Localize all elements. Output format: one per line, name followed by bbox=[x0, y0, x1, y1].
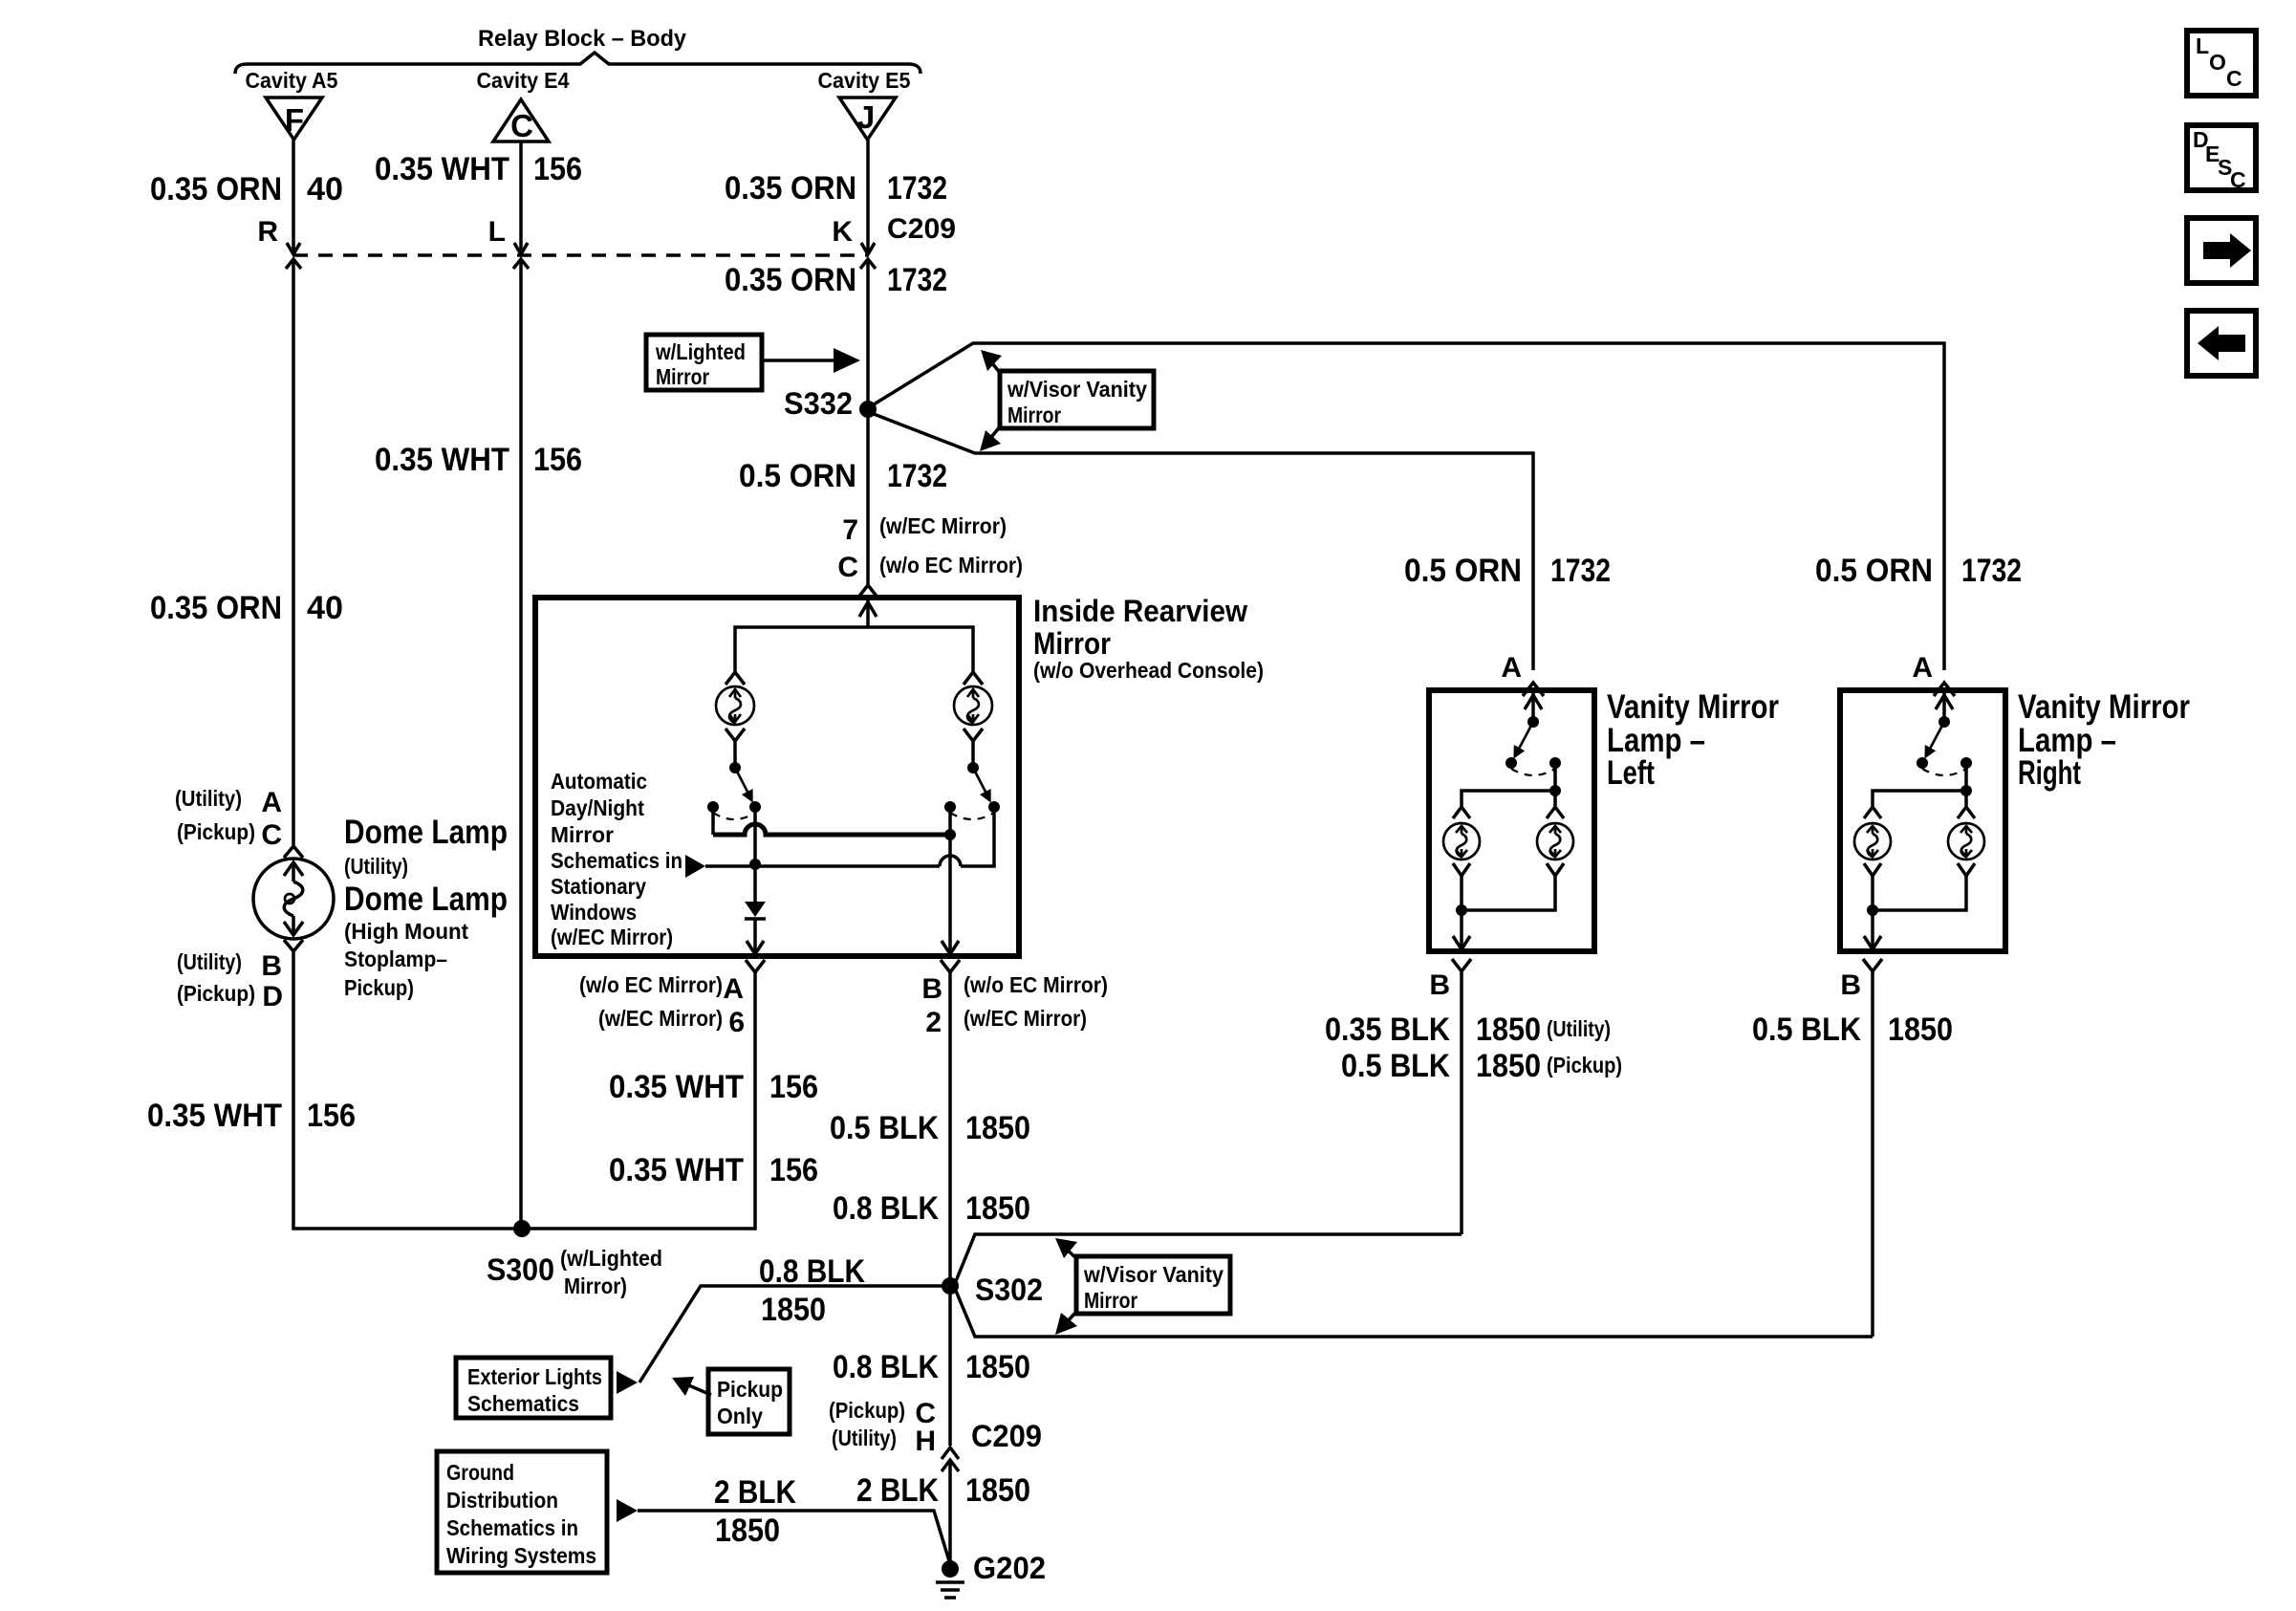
arrow tag to bottom branch (S302) bbox=[1055, 1311, 1077, 1335]
connector chevron below L bbox=[513, 259, 529, 269]
svg-text:(w/EC Mirror): (w/EC Mirror) bbox=[879, 513, 1007, 538]
svg-text:0.35 WHT: 0.35 WHT bbox=[609, 1152, 744, 1188]
connector J (Cavity E5) bbox=[839, 98, 896, 140]
svg-text:B: B bbox=[261, 950, 282, 982]
wire S332 down to mirror box bbox=[866, 409, 870, 584]
exit wire left vanity (arrow down) bbox=[1453, 910, 1470, 949]
svg-text:Exterior Lights: Exterior Lights bbox=[467, 1364, 602, 1389]
lamp1 left vanity bbox=[1443, 823, 1480, 860]
wire schematics line bbox=[705, 812, 994, 866]
svg-text:Inside Rearview: Inside Rearview bbox=[1033, 594, 1247, 628]
svg-text:Mirror: Mirror bbox=[656, 364, 709, 389]
label pin C (w/o EC Mirror) bbox=[837, 552, 1023, 583]
bottom rail right vanity bbox=[1873, 876, 1966, 910]
switch arm right bbox=[973, 768, 991, 803]
label (Pickup) C pin bbox=[829, 1398, 936, 1429]
svg-text:1732: 1732 bbox=[887, 262, 947, 298]
svg-text:Stoplamp–: Stoplamp– bbox=[344, 947, 447, 971]
wire right contact down to box bottom (pin B line, arrow down) bbox=[942, 807, 959, 954]
label 0.8 BLK 1850 bbox=[833, 1190, 1030, 1227]
svg-text:1850: 1850 bbox=[1476, 1048, 1541, 1084]
svg-text:Stationary: Stationary bbox=[551, 874, 646, 899]
svg-text:Ground: Ground bbox=[446, 1460, 514, 1485]
vanity mirror lamp left box bbox=[1429, 690, 1594, 951]
wire contact to junction (left vanity) bbox=[1553, 763, 1557, 791]
switch right-right contact dot tail bbox=[992, 807, 996, 812]
label (Pickup) D pin bbox=[177, 981, 283, 1012]
vanity mirror lamp right box bbox=[1840, 690, 2005, 951]
svg-text:(w/EC Mirror): (w/EC Mirror) bbox=[551, 925, 673, 949]
wire lamp rail (left vanity) bbox=[1462, 791, 1555, 806]
diode bbox=[745, 902, 766, 919]
svg-text:A: A bbox=[723, 973, 744, 1005]
svg-text:(w/o EC Mirror): (w/o EC Mirror) bbox=[579, 972, 723, 997]
label (w/EC Mirror) 6 bbox=[598, 1006, 745, 1038]
wire mirror entry (arrow up inside) bbox=[859, 600, 877, 627]
label 0.5 BLK 1850 bbox=[830, 1110, 1030, 1146]
left vanity contact left bbox=[1505, 757, 1517, 769]
left vanity entry wire (arrow up) bbox=[1525, 693, 1542, 719]
svg-text:H: H bbox=[915, 1426, 936, 1457]
svg-text:S300: S300 bbox=[487, 1252, 554, 1287]
label 0.5 ORN 1732 (left vanity feed) bbox=[1404, 553, 1611, 589]
wire J to C209 bbox=[866, 140, 870, 251]
wire S332 to left vanity (bottom branch) bbox=[874, 414, 1533, 670]
w/Visor Vanity Mirror tag box (S302) bbox=[1076, 1256, 1230, 1314]
label 2 BLK 1850 (right) bbox=[856, 1472, 1030, 1509]
svg-text:C: C bbox=[261, 819, 282, 851]
svg-text:1850: 1850 bbox=[715, 1513, 780, 1549]
svg-text:Cavity E4: Cavity E4 bbox=[477, 68, 570, 93]
label 0.35 WHT 156 (mid) bbox=[375, 442, 582, 478]
wire lamp rail (right vanity) bbox=[1873, 791, 1966, 806]
wire C209 to G202 bbox=[948, 1460, 952, 1569]
svg-text:Mirror: Mirror bbox=[1007, 403, 1061, 427]
svg-text:C209: C209 bbox=[887, 213, 956, 245]
arrow tag to top branch bbox=[981, 350, 1002, 374]
svg-text:0.35 WHT: 0.35 WHT bbox=[375, 151, 509, 187]
label Vanity Mirror Lamp - Left bbox=[1607, 688, 1779, 792]
svg-text:Pickup: Pickup bbox=[717, 1377, 783, 1402]
junction dot bottom right vanity bbox=[1867, 904, 1878, 916]
svg-text:B: B bbox=[921, 973, 942, 1005]
svg-text:2 BLK: 2 BLK bbox=[714, 1474, 796, 1511]
svg-text:(Utility): (Utility) bbox=[1547, 1016, 1611, 1041]
svg-text:(w/o EC Mirror): (w/o EC Mirror) bbox=[964, 972, 1108, 997]
svg-text:D: D bbox=[262, 981, 283, 1012]
DESC reference box bbox=[2187, 125, 2256, 192]
right vanity switch pivot bbox=[1939, 716, 1950, 728]
bottom rail left vanity bbox=[1462, 876, 1555, 910]
svg-text:0.35 ORN: 0.35 ORN bbox=[725, 170, 856, 207]
svg-text:0.35 WHT: 0.35 WHT bbox=[147, 1098, 282, 1134]
relay block brace bbox=[235, 53, 921, 74]
svg-text:Left: Left bbox=[1607, 754, 1655, 792]
wire C to C209 bbox=[519, 142, 523, 251]
label 0.35 BLK 1850 (Utility) bbox=[1325, 1012, 1611, 1048]
svg-text:Relay Block – Body: Relay Block – Body bbox=[478, 26, 687, 52]
svg-text:(High Mount: (High Mount bbox=[344, 919, 468, 944]
wire pin B down to S302 bbox=[948, 972, 952, 1286]
svg-text:A: A bbox=[1912, 652, 1933, 684]
svg-text:J: J bbox=[857, 99, 875, 135]
switch contact left-left bbox=[707, 801, 719, 813]
svg-text:1732: 1732 bbox=[1961, 553, 2022, 589]
wire lamp to switch pivot (left) bbox=[733, 741, 737, 765]
svg-text:C: C bbox=[2226, 66, 2242, 91]
LOC reference box bbox=[2187, 31, 2256, 96]
arrow w/Lighted Mirror to wire bbox=[762, 348, 860, 373]
svg-text:S302: S302 bbox=[975, 1273, 1043, 1307]
connector chevron below R bbox=[286, 259, 301, 269]
svg-text:O: O bbox=[2209, 50, 2226, 75]
wire S332 to right vanity (top branch) bbox=[874, 343, 1944, 670]
label 0.35 ORN 1732 (top) bbox=[725, 170, 947, 207]
label 0.8 BLK 1850 (below S302) bbox=[833, 1349, 1030, 1385]
wire right vanity B down bbox=[1871, 971, 1874, 1337]
switch contact right-right bbox=[988, 801, 1000, 813]
connector arrow at R bbox=[287, 243, 300, 254]
svg-text:1732: 1732 bbox=[887, 170, 947, 207]
svg-text:1850: 1850 bbox=[761, 1292, 826, 1328]
svg-text:R: R bbox=[257, 216, 278, 248]
right arrow reference box bbox=[2187, 218, 2256, 283]
svg-text:Pickup): Pickup) bbox=[344, 975, 414, 1000]
svg-text:Cavity E5: Cavity E5 bbox=[818, 68, 911, 93]
svg-text:0.8 BLK: 0.8 BLK bbox=[833, 1190, 939, 1227]
connector chevron below box pin B bbox=[941, 960, 960, 972]
svg-text:(Pickup): (Pickup) bbox=[829, 1398, 905, 1423]
svg-text:(w/EC Mirror): (w/EC Mirror) bbox=[598, 1006, 723, 1031]
dome lamp bbox=[253, 859, 334, 939]
svg-text:Only: Only bbox=[717, 1404, 763, 1428]
ground G202 bbox=[936, 1560, 964, 1598]
junction dot rail to B line bbox=[944, 829, 956, 840]
svg-text:6: 6 bbox=[728, 1007, 745, 1038]
left arrow reference box bbox=[2187, 311, 2256, 376]
svg-text:(Utility): (Utility) bbox=[832, 1426, 897, 1450]
connector arrow at K bbox=[861, 243, 875, 254]
wire mirror top rail bbox=[735, 627, 973, 671]
dashed line C209 bbox=[293, 253, 868, 256]
junction dot schematics line bbox=[749, 859, 761, 870]
svg-text:1850: 1850 bbox=[965, 1472, 1030, 1509]
wire S302 down to C209 bbox=[948, 1286, 952, 1446]
ground distribution schematics box bbox=[437, 1451, 607, 1573]
lamp2 right vanity bbox=[1948, 823, 1984, 860]
svg-text:w/Visor Vanity: w/Visor Vanity bbox=[1007, 377, 1147, 402]
wire F down to dome lamp bbox=[292, 259, 295, 845]
label 2 (w/EC Mirror) bbox=[925, 1006, 1087, 1038]
label 0.35 WHT 156 (top) bbox=[375, 151, 582, 187]
left vanity switch arm bbox=[1513, 722, 1533, 759]
label 0.5 BLK 1850 (right vanity) bbox=[1752, 1012, 1953, 1048]
switch arm left bbox=[735, 768, 753, 803]
svg-text:156: 156 bbox=[769, 1069, 818, 1105]
wire S302 left to exterior lights bbox=[639, 1286, 950, 1382]
label Automatic Day/Night Mirror Schematics bbox=[551, 769, 682, 949]
svg-text:2: 2 bbox=[925, 1007, 942, 1038]
connector chevron at mirror box entry bbox=[857, 585, 878, 599]
connector chevron below left vanity bbox=[1452, 959, 1471, 971]
label 0.35 ORN 1732 (below C209) bbox=[725, 262, 947, 298]
connector chevron below dome lamp bbox=[284, 940, 303, 951]
dashed arc right vanity bbox=[1922, 769, 1966, 775]
switch pivot right bbox=[967, 762, 979, 773]
wire F to C209 bbox=[292, 140, 295, 251]
label 2 BLK / 1850 (ground wire) bbox=[714, 1474, 796, 1549]
svg-text:0.5 BLK: 0.5 BLK bbox=[1752, 1012, 1861, 1048]
wire pin A down to S300 corner bbox=[522, 972, 755, 1229]
svg-text:7: 7 bbox=[842, 514, 858, 546]
splice S332 bbox=[859, 401, 877, 418]
svg-text:Distribution: Distribution bbox=[446, 1488, 558, 1513]
wire S302 to right vanity B (bottom branch) bbox=[956, 1291, 1873, 1337]
chevron above lamp2 bbox=[1547, 807, 1564, 818]
svg-text:B: B bbox=[1840, 969, 1861, 1001]
wire diode to box bottom (arrow down) bbox=[747, 919, 764, 954]
svg-text:Day/Night: Day/Night bbox=[551, 795, 644, 820]
wire left contact to heavy rail bbox=[711, 807, 715, 835]
exterior lights schematics box bbox=[456, 1358, 611, 1418]
label Inside Rearview Mirror bbox=[1033, 594, 1264, 683]
label Vanity Mirror Lamp - Right bbox=[2018, 688, 2190, 792]
svg-text:L: L bbox=[2196, 33, 2209, 58]
switch contact right-left bbox=[944, 801, 956, 813]
label S300 (w/Lighted Mirror) bbox=[487, 1246, 662, 1298]
svg-text:(Pickup): (Pickup) bbox=[1547, 1053, 1622, 1078]
splice S302 bbox=[942, 1277, 959, 1295]
connector C209 double chevron bbox=[942, 1448, 959, 1471]
svg-text:Schematics in: Schematics in bbox=[446, 1515, 578, 1540]
svg-text:Vanity Mirror: Vanity Mirror bbox=[1607, 688, 1779, 726]
svg-text:w/Lighted: w/Lighted bbox=[655, 339, 746, 364]
svg-text:0.8 BLK: 0.8 BLK bbox=[759, 1253, 865, 1290]
svg-text:B: B bbox=[1429, 969, 1450, 1001]
w/Visor Vanity Mirror tag box (S332) bbox=[1000, 371, 1154, 428]
svg-text:Wiring Systems: Wiring Systems bbox=[446, 1543, 596, 1568]
wire J down to S332 bbox=[866, 259, 870, 409]
wire C down to S300 bbox=[519, 259, 523, 1229]
svg-text:(Pickup): (Pickup) bbox=[177, 819, 255, 844]
svg-text:Dome Lamp: Dome Lamp bbox=[344, 881, 508, 918]
left vanity switch pivot bbox=[1527, 716, 1539, 728]
arrow pickup only pointer bbox=[672, 1377, 711, 1396]
lamp2 left vanity bbox=[1537, 823, 1573, 860]
chevron below lamp1 bbox=[1453, 863, 1470, 876]
svg-text:A: A bbox=[1501, 652, 1522, 684]
svg-text:(w/EC Mirror): (w/EC Mirror) bbox=[964, 1006, 1087, 1031]
svg-text:A: A bbox=[261, 787, 282, 818]
svg-text:40: 40 bbox=[307, 171, 343, 207]
svg-text:S332: S332 bbox=[784, 386, 853, 421]
svg-text:F: F bbox=[285, 102, 304, 138]
svg-text:Right: Right bbox=[2018, 754, 2081, 792]
arrow tag to top branch (S302) bbox=[1055, 1238, 1077, 1259]
svg-text:(Utility): (Utility) bbox=[177, 949, 242, 974]
wire contact to junction (right vanity) bbox=[1964, 763, 1968, 791]
label pin 7 (w/EC Mirror) bbox=[842, 513, 1007, 546]
svg-text:(Utility): (Utility) bbox=[344, 854, 408, 879]
junction dot right vanity bbox=[1960, 785, 1972, 796]
svg-text:0.5 ORN: 0.5 ORN bbox=[739, 458, 856, 494]
junction dot left vanity bbox=[1549, 785, 1561, 796]
svg-text:0.5 ORN: 0.5 ORN bbox=[1404, 553, 1522, 589]
label 0.5 ORN 1732 (right vanity feed) bbox=[1815, 553, 2022, 589]
hop over B line bbox=[940, 856, 961, 866]
svg-text:Automatic: Automatic bbox=[551, 769, 647, 794]
connector chevron right vanity entry bbox=[1934, 683, 1955, 696]
label 0.35 WHT 156 (pin A upper) bbox=[609, 1069, 818, 1105]
svg-text:0.35 ORN: 0.35 ORN bbox=[150, 590, 282, 626]
wire switch right contact down (pin A line) bbox=[753, 807, 757, 902]
svg-text:Mirror: Mirror bbox=[1084, 1288, 1137, 1313]
switch contact left-right bbox=[749, 801, 761, 813]
connector C (Cavity E4) bbox=[493, 99, 549, 143]
connector chevron below box pin A bbox=[746, 960, 765, 972]
svg-text:1850: 1850 bbox=[965, 1110, 1030, 1146]
label 0.5 BLK 1850 (Pickup) bbox=[1341, 1048, 1622, 1084]
svg-text:156: 156 bbox=[307, 1098, 356, 1134]
svg-text:C: C bbox=[837, 552, 858, 583]
connector chevron above left mirror lamp bbox=[726, 672, 745, 685]
label (Utility) A pin bbox=[175, 786, 282, 818]
connector chevron above right mirror lamp bbox=[964, 672, 983, 685]
svg-text:1850: 1850 bbox=[1888, 1012, 1953, 1048]
svg-text:40: 40 bbox=[307, 590, 343, 626]
junction dot bottom left vanity bbox=[1456, 904, 1467, 916]
pickup only tag box bbox=[708, 1369, 790, 1434]
svg-text:0.5 ORN: 0.5 ORN bbox=[1815, 553, 1933, 589]
svg-text:0.35 WHT: 0.35 WHT bbox=[375, 442, 509, 478]
svg-text:Cavity A5: Cavity A5 bbox=[246, 68, 338, 93]
svg-text:C: C bbox=[2230, 167, 2246, 192]
wire lamp to switch pivot (right) bbox=[971, 741, 975, 765]
right vanity contact left bbox=[1917, 757, 1928, 769]
connector F (Cavity A5) bbox=[266, 98, 322, 140]
svg-text:0.8 BLK: 0.8 BLK bbox=[833, 1349, 939, 1385]
svg-text:156: 156 bbox=[769, 1152, 818, 1188]
right vanity switch arm bbox=[1924, 722, 1944, 759]
svg-text:Dome Lamp: Dome Lamp bbox=[344, 814, 508, 851]
dashed arc left vanity bbox=[1511, 769, 1555, 775]
svg-text:1850: 1850 bbox=[965, 1190, 1030, 1227]
label 0.35 WHT 156 (pin A lower) bbox=[609, 1152, 818, 1188]
connector chevron below right vanity bbox=[1863, 959, 1882, 971]
label (Utility) H pin bbox=[832, 1426, 936, 1457]
svg-text:2 BLK: 2 BLK bbox=[856, 1472, 939, 1509]
chevron below lamp1 right bbox=[1864, 863, 1881, 876]
svg-text:(w/Lighted: (w/Lighted bbox=[560, 1246, 662, 1271]
dashed arc between right contacts bbox=[950, 813, 994, 819]
splice S300 bbox=[513, 1220, 531, 1237]
svg-text:w/Visor Vanity: w/Visor Vanity bbox=[1083, 1262, 1224, 1287]
wire ground distribution to G202 bbox=[638, 1511, 950, 1564]
label (w/o EC Mirror) A bbox=[579, 972, 744, 1005]
chevron below lamp2 right bbox=[1958, 863, 1975, 876]
svg-text:(w/o EC Mirror): (w/o EC Mirror) bbox=[879, 553, 1023, 577]
connector chevron left vanity entry bbox=[1523, 683, 1544, 696]
arrow exterior lights pointer bbox=[617, 1371, 638, 1394]
connector arrow at L bbox=[514, 243, 528, 254]
arrow schematics pointer bbox=[685, 855, 705, 878]
svg-text:0.35 ORN: 0.35 ORN bbox=[725, 262, 856, 298]
label Dome Lamp (High Mount Stoplamp-Pickup) bbox=[344, 881, 508, 1000]
inside rearview mirror box bbox=[535, 598, 1019, 956]
svg-text:(w/o Overhead Console): (w/o Overhead Console) bbox=[1033, 658, 1264, 683]
wire S302 to left vanity B (top branch) bbox=[956, 1234, 1462, 1281]
exit wire right vanity (arrow down) bbox=[1864, 910, 1881, 949]
right vanity contact right bbox=[1960, 757, 1972, 769]
label 0.35 ORN 40 (left mid) bbox=[150, 590, 343, 626]
svg-text:1732: 1732 bbox=[1550, 553, 1611, 589]
label B (w/o EC Mirror) bbox=[921, 972, 1108, 1005]
heavy rail inside mirror bbox=[713, 824, 950, 835]
svg-text:Windows: Windows bbox=[551, 900, 637, 925]
svg-text:1732: 1732 bbox=[887, 458, 947, 494]
connector chevron below left mirror lamp bbox=[726, 729, 745, 741]
svg-text:0.35 ORN: 0.35 ORN bbox=[150, 171, 282, 207]
switch pivot left bbox=[729, 762, 741, 773]
chevron below lamp2 bbox=[1547, 863, 1564, 876]
right vanity entry wire (arrow up) bbox=[1936, 693, 1953, 719]
chevron above lamp1 right bbox=[1864, 807, 1881, 818]
connector chevron below right mirror lamp bbox=[964, 729, 983, 741]
svg-text:Schematics in: Schematics in bbox=[551, 848, 682, 873]
wire dome lamp to S300 corner bbox=[293, 952, 522, 1229]
dashed arc between left contacts bbox=[713, 813, 755, 819]
svg-text:Vanity Mirror: Vanity Mirror bbox=[2018, 688, 2190, 726]
arrow ground distribution pointer bbox=[617, 1499, 638, 1522]
label Dome Lamp (Utility) bbox=[344, 814, 508, 879]
chevron above lamp1 bbox=[1453, 807, 1470, 818]
chevron above lamp2 right bbox=[1958, 807, 1975, 818]
svg-text:Mirror: Mirror bbox=[1033, 626, 1111, 661]
label 0.35 ORN 40 (top left) bbox=[150, 171, 343, 207]
w/Lighted Mirror tag box bbox=[646, 335, 762, 390]
svg-text:0.5 BLK: 0.5 BLK bbox=[1341, 1048, 1450, 1084]
svg-text:L: L bbox=[488, 216, 506, 248]
lamp1 right vanity bbox=[1854, 823, 1891, 860]
wire left vanity B down bbox=[1460, 971, 1463, 1234]
label 0.35 WHT 156 (dome) bbox=[147, 1098, 356, 1134]
svg-text:C: C bbox=[510, 108, 533, 143]
label 0.8 BLK / 1850 (exterior) bbox=[759, 1253, 865, 1328]
svg-text:Schematics: Schematics bbox=[467, 1391, 579, 1416]
svg-text:156: 156 bbox=[533, 151, 582, 187]
svg-text:G202: G202 bbox=[973, 1551, 1046, 1585]
svg-text:Mirror: Mirror bbox=[551, 822, 614, 847]
label (Utility) B pin bbox=[177, 949, 282, 982]
label 0.5 ORN 1732 (J lower) bbox=[739, 458, 947, 494]
svg-text:Mirror): Mirror) bbox=[564, 1274, 627, 1298]
lamp right (mirror) bbox=[954, 686, 992, 725]
svg-text:(Utility): (Utility) bbox=[175, 786, 242, 811]
svg-text:0.35 WHT: 0.35 WHT bbox=[609, 1069, 744, 1105]
connector chevron above dome lamp bbox=[284, 846, 303, 858]
label (Pickup) C pin bbox=[177, 819, 282, 851]
svg-text:156: 156 bbox=[533, 442, 582, 478]
svg-text:(Pickup): (Pickup) bbox=[177, 981, 255, 1006]
svg-text:C209: C209 bbox=[971, 1419, 1042, 1453]
svg-text:0.35 BLK: 0.35 BLK bbox=[1325, 1012, 1450, 1048]
arrow tag to bottom branch bbox=[980, 425, 1001, 451]
left vanity contact right bbox=[1549, 757, 1561, 769]
svg-text:0.5 BLK: 0.5 BLK bbox=[830, 1110, 939, 1146]
connector chevron below K bbox=[860, 259, 876, 269]
svg-text:1850: 1850 bbox=[1476, 1012, 1541, 1048]
svg-text:1850: 1850 bbox=[965, 1349, 1030, 1385]
